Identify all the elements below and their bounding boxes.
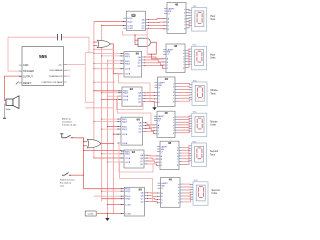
wire counter6 QA to decoder6 A (148, 192, 158, 194)
wire decoder1 seg-c to display1 (188, 14, 191, 16)
cascade wire row6 to row5 (120, 162, 153, 202)
wire decoder2 seg-a to display2 (188, 49, 189, 50)
capacitor C1 (58, 34, 62, 40)
wire decoder3 seg-a to display3 (178, 83, 190, 84)
bus vertical B (101, 25, 103, 201)
wire decoder2 seg-b to display2 (188, 52, 189, 54)
wire decoder2 seg-e to display2 (188, 59, 189, 62)
svg-text:CLKB: CLKB (122, 134, 128, 136)
counter U5 7492 (119, 87, 145, 106)
svg-text:CLKB: CLKB (125, 69, 131, 71)
svg-text:CLKB: CLKB (127, 28, 133, 30)
wire counter3 QB to decoder3 B (145, 95, 155, 97)
wire counter3 QA to decoder3 A (145, 91, 155, 93)
svg-text:R0(2): R0(2) (127, 21, 132, 23)
svg-text:c: c (173, 89, 174, 91)
wire counter4 QA to decoder4 A (146, 123, 155, 125)
wire counter6 QB to decoder6 B (148, 195, 158, 198)
bus vertical C (106, 60, 108, 214)
bus vertical E switch branch (83, 138, 85, 189)
svg-text:g: g (178, 202, 179, 204)
svg-text:d: d (178, 193, 179, 195)
wire decoder6 seg-d to display6 (183, 191, 191, 194)
wire threshold/discharge stubs (66, 69, 71, 71)
wire decoder1 seg-e to display1 (188, 20, 191, 21)
svg-text:OUTPUT: OUTPUT (23, 76, 33, 79)
svg-text:Tens: Tens (210, 153, 216, 156)
svg-text:48: 48 (168, 141, 172, 145)
wire decoder1 seg-d to display1 (188, 17, 191, 20)
svg-text:R0(2): R0(2) (123, 93, 128, 95)
ground below speaker (3, 117, 6, 119)
decoder U12 7448 (158, 177, 184, 207)
svg-text:the clock to: the clock to (60, 181, 72, 184)
ground G (106, 214, 108, 218)
rail y126.6 to counter4 R9(1) (107, 126, 121, 128)
svg-text:c: c (177, 153, 178, 155)
wire decoder5 seg-f to display5 (182, 158, 189, 161)
svg-text:CLKA: CLKA (123, 95, 129, 98)
wire decoder2 seg-g to display2 (188, 64, 189, 67)
svg-text:Switch to reset: Switch to reset (60, 179, 75, 182)
7-segment display DS6 (190, 180, 208, 205)
rail y134.2 to counter4 CLKB (113, 133, 121, 135)
svg-text:CLKA: CLKA (127, 24, 133, 27)
wire decoder3 seg-f to display3 (178, 96, 190, 99)
wire button to gate3 (73, 138, 87, 142)
switch S2 reset (62, 173, 71, 176)
wire counter2 QA to decoder2 A (145, 57, 163, 59)
decoder U4 7448 (163, 44, 188, 73)
wire decoder4 seg-a to display4 (178, 115, 189, 118)
wire decoder4 seg-f to display4 (178, 129, 189, 131)
svg-text:c: c (184, 15, 185, 17)
wire counter5 QB to decoder5 B (147, 157, 157, 160)
wire trigger from left loop (8, 70, 22, 72)
wire loop leg down (146, 35, 148, 54)
wire decoder5 seg-b to display5 (182, 148, 189, 150)
svg-text:R0(1): R0(1) (127, 18, 132, 20)
svg-text:CLKB: CLKB (125, 204, 131, 206)
rail y96.2 to counter3 CLKA (107, 95, 122, 97)
wire decoder4 seg-d to display4 (178, 124, 189, 125)
rail y55.9 to counter2 R0(2) (102, 55, 124, 57)
wire gate2 output (147, 42, 156, 54)
AND gate G2 (135, 39, 138, 41)
wire decoder3 seg-g to display3 (178, 100, 190, 101)
wire counter5 QA to decoder5 A (147, 154, 157, 157)
rail y158 to counter5 clk (94, 157, 124, 159)
wire switch to bus (71, 174, 84, 176)
wire decoder6 seg-e to display6 (183, 195, 191, 196)
7-segment display DS1 (189, 6, 207, 31)
decoder U2 7448 (164, 2, 189, 33)
svg-text:increment: increment (62, 120, 72, 123)
counter U9 7492 (121, 150, 147, 168)
wire to decoder2 input A (152, 54, 163, 59)
svg-text:minutes at one: minutes at one (62, 123, 77, 126)
wire decoder6 seg-b to display6 (183, 186, 191, 188)
svg-text:90: 90 (139, 188, 143, 192)
wire decoder4 seg-e to display4 (178, 126, 189, 128)
counter U3 7490 (121, 52, 145, 78)
svg-text:LAMPT: LAMPT (168, 7, 175, 10)
speaker LS1 (6, 96, 19, 109)
wire counter2 QB to decoder2 B (145, 60, 163, 62)
wire counter1 QD to decoder1 D (149, 27, 165, 30)
svg-text:48: 48 (174, 44, 178, 48)
svg-text:g: g (177, 164, 178, 166)
wire decoder3 seg-e to display3 (178, 94, 190, 96)
wire decoder6 seg-f to display6 (183, 197, 191, 199)
wire counter6 QC to decoder6 C (148, 198, 158, 201)
wire decoder5 seg-g to display5 (182, 161, 189, 165)
wire decoder2 seg-d to display2 (188, 57, 189, 59)
svg-text:R9(2): R9(2) (125, 63, 130, 65)
wire counter3 QC to decoder3 C (145, 98, 155, 100)
wire counter5 QD to decoder5 D (147, 164, 157, 165)
wire decoder5 seg-a to display5 (182, 146, 189, 148)
decoder U6 7448 (155, 77, 179, 107)
wire decoder6 seg-g to display6 (183, 200, 191, 202)
wire top row to counter1 (94, 20, 126, 22)
bus vertical D (112, 44, 114, 214)
svg-text:g: g (173, 101, 174, 103)
svg-text:d: d (177, 156, 178, 158)
svg-text:CONTROL VOLTAGE: CONTROL VOLTAGE (41, 81, 63, 84)
svg-text:92: 92 (132, 150, 136, 154)
counter U11 7490 (121, 187, 147, 216)
reset pin tick (16, 82, 19, 85)
svg-text:R9(2): R9(2) (125, 199, 130, 201)
decoder U8 7448 (154, 111, 178, 138)
wire decoder4 seg-g to display4 (178, 131, 189, 133)
wire output to speaker (5, 76, 22, 100)
svg-text:CLKA: CLKA (125, 157, 131, 160)
rail y150.5 to counter5 (84, 150, 125, 152)
rail y191.2 to counter6 R0(2) (102, 190, 124, 192)
svg-text:R0(2): R0(2) (122, 122, 127, 124)
rail y53.5 to counter2 R0(1) (94, 53, 124, 55)
rail y60.9 to counter2 R9(1) (107, 60, 124, 62)
svg-text:CLKA: CLKA (125, 213, 131, 216)
wire counter4 QB to decoder4 B (146, 126, 155, 128)
rail y198.7 to counter6 R9(2) (102, 198, 124, 200)
svg-text:GND: GND (23, 64, 29, 67)
bus vertical A (93, 21, 95, 158)
svg-text:d: d (184, 19, 185, 21)
wire Vcc to right bus (66, 63, 86, 65)
wire top loop with capacitor (8, 37, 57, 71)
rail y82 (94, 81, 115, 83)
wire decoder2 seg-c to display2 (188, 54, 189, 56)
rail y107.8 (85, 107, 113, 109)
wire decoder1 seg-b to display1 (188, 11, 191, 13)
wire counter4 QC to decoder4 C (146, 129, 155, 131)
svg-text:R0(2): R0(2) (125, 56, 130, 58)
svg-text:RESET: RESET (23, 82, 32, 85)
rail y49 (94, 48, 114, 50)
svg-text:48: 48 (164, 111, 168, 115)
svg-text:90: 90 (136, 52, 140, 56)
wire counter3 QD to decoder3 D (145, 101, 155, 104)
svg-text:R0(2): R0(2) (125, 154, 130, 156)
rail y129.1 to counter4 R9(2) (102, 128, 121, 130)
rail y68.7 to counter2 CLKB (94, 68, 124, 70)
wire counter2 QC to decoder2 C (145, 63, 163, 65)
svg-text:DISCHARGE: DISCHARGE (49, 69, 63, 72)
wire decoder6 seg-c to display6 (183, 189, 191, 191)
OR gate G1 (97, 40, 110, 48)
svg-text:CLKA: CLKA (125, 73, 131, 76)
wire decoder5 seg-c to display5 (182, 151, 189, 153)
7-segment display DS5 (188, 141, 206, 166)
wire counter1 QB to decoder1 B (149, 21, 165, 23)
rail y154 to counter5 (102, 153, 124, 155)
svg-text:48: 48 (165, 77, 169, 81)
wire speaker lower terminal (5, 104, 7, 108)
svg-text:g: g (184, 28, 185, 30)
svg-text:g: g (173, 133, 174, 135)
wire counter1 QC to decoder1 C (149, 24, 165, 26)
svg-text:48: 48 (175, 2, 179, 6)
cascade wire row1 loop (123, 28, 148, 35)
svg-text:R0(2): R0(2) (125, 191, 130, 193)
svg-text:TRIGGER: TRIGGER (23, 70, 34, 73)
svg-text:R9(2): R9(2) (122, 129, 127, 131)
wire decoder6 seg-a to display6 (183, 183, 191, 186)
rail y119.1 to counter4 R0(1) (102, 118, 121, 120)
logic probe box (85, 211, 96, 216)
rail y188.7 to counter6 R0(1) (84, 188, 125, 190)
rail y99.5 to counter3 CLKB (102, 99, 122, 101)
wire decoder4 seg-b to display4 (178, 119, 189, 120)
wire decoder3 seg-c to display3 (178, 88, 190, 90)
rail y93 to counter3 R0(2) (102, 92, 122, 94)
OR gate G3 (87, 139, 101, 148)
svg-text:c: c (183, 56, 184, 58)
7-segment display DS4 (189, 112, 207, 137)
pin junction dots (123, 21, 124, 22)
svg-text:Units: Units (210, 124, 216, 127)
rail y121.6 to counter4 R0(2) (94, 121, 121, 123)
svg-text:8ohm: 8ohm (6, 109, 11, 111)
wire decoder3 seg-d to display3 (178, 91, 190, 93)
timer IC 555 (22, 47, 64, 86)
svg-text:Units: Units (210, 57, 216, 60)
svg-text:Tens: Tens (210, 18, 216, 21)
counter U7 7490 (118, 117, 146, 145)
7-segment display DS2 (188, 45, 206, 70)
svg-text:g: g (183, 67, 184, 69)
svg-text:90: 90 (137, 117, 141, 121)
wire decoder1 seg-f to display1 (188, 23, 191, 25)
wire gate1 output to counter2 clock (111, 44, 122, 74)
push button S1 (60, 134, 73, 138)
svg-text:Button to: Button to (62, 118, 72, 121)
wire gate3 lower input (84, 145, 88, 147)
wire decoder3 seg-b to display3 (178, 85, 190, 88)
wire logic to counter6 clock (97, 213, 124, 215)
cascade wire row4 to row3 (118, 96, 152, 131)
wire counter1 QA to decoder1 A (149, 18, 165, 21)
svg-text:CLKB: CLKB (125, 162, 131, 164)
rail y63.4 to counter2 R9(2) (94, 62, 124, 64)
svg-text:CLKA: CLKA (122, 142, 128, 145)
wire counter2 QD to decoder2 D (145, 66, 163, 69)
decoder U10 7448 (157, 141, 182, 170)
rail y196.2 to counter6 R9(1) (94, 195, 124, 197)
svg-text:555: 555 (39, 54, 47, 59)
counter U1 7492 (123, 11, 148, 30)
7-segment display DS3 (189, 80, 207, 105)
cascade wire row3 to row2 (119, 74, 151, 102)
wire decoder1 seg-a to display1 (188, 9, 191, 10)
svg-text:92: 92 (130, 87, 134, 91)
svg-text:Tens: Tens (211, 92, 217, 95)
svg-text:LOGIC: LOGIC (88, 214, 95, 216)
svg-text:CLKB: CLKB (123, 99, 129, 101)
wire control voltage bottom (85, 101, 94, 103)
AND gate G2 (138, 38, 151, 46)
wire counter5 QC to decoder5 C (147, 161, 157, 162)
wire decoder2 seg-f to display2 (188, 62, 189, 65)
wire gate3 output to bus (101, 143, 113, 145)
svg-text:d: d (183, 59, 184, 61)
ground near decoder3 (154, 103, 156, 108)
cascade wire row5 to row4 (119, 143, 153, 172)
wire decoder4 seg-c to display4 (178, 121, 189, 122)
wire decoder5 seg-e to display5 (182, 156, 189, 159)
svg-text:Units: Units (212, 192, 218, 195)
svg-text:THRESHOLD: THRESHOLD (49, 76, 63, 78)
wire decoder1 seg-g to display1 (188, 25, 191, 28)
svg-text:d: d (173, 92, 174, 94)
wire decoder5 seg-d to display5 (182, 153, 189, 156)
svg-text:c: c (178, 190, 179, 192)
svg-text:48: 48 (169, 177, 173, 181)
rail y162 to counter5 (107, 161, 124, 163)
wire gate1 inputs (94, 41, 97, 43)
rail y204.5 to counter6 CLKB (107, 204, 124, 206)
wire counter4 QD to decoder4 D (146, 131, 155, 133)
wire speaker to ground (4, 108, 6, 119)
reset loop below counter3 (116, 100, 143, 110)
rail y90.8 to counter3 R0(1) (94, 90, 122, 92)
wire counter6 QD to decoder6 D (148, 202, 158, 203)
